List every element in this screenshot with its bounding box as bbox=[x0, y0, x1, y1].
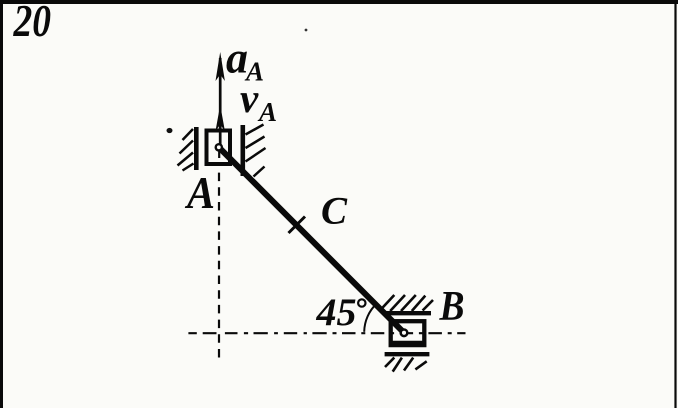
svg-text:20: 20 bbox=[13, 0, 51, 46]
svg-text:A: A bbox=[184, 167, 215, 218]
svg-text:45: 45 bbox=[315, 291, 356, 334]
svg-text:v: v bbox=[240, 75, 259, 121]
svg-text:A: A bbox=[257, 97, 277, 127]
svg-text:B: B bbox=[439, 284, 465, 330]
svg-text:C: C bbox=[321, 190, 348, 233]
